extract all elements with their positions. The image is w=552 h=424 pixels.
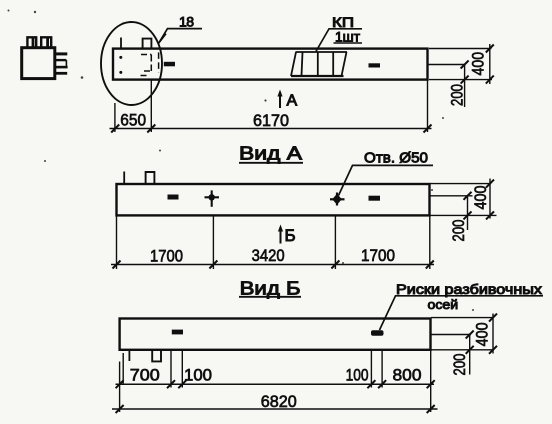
- svg-text:1700: 1700: [150, 247, 183, 265]
- svg-text:Отв. Ø50: Отв. Ø50: [364, 150, 428, 167]
- main view: embedded tab above beam (item 18): [143, 39, 152, 49]
- view A right: dimension 400: [472, 179, 494, 220]
- main view: embedded plate mark (right): [369, 63, 381, 67]
- svg-text:Риски разбивочных: Риски разбивочных: [396, 282, 542, 297]
- label Riski razbivochnykh osey with leader: [380, 282, 544, 330]
- main view bottom: extension lines: [115, 80, 428, 132]
- svg-text:1700: 1700: [361, 247, 395, 265]
- view B right: dimension 200: [451, 331, 474, 376]
- svg-text:Вид Б: Вид Б: [240, 278, 301, 298]
- svg-text:400: 400: [472, 186, 490, 210]
- label KP 1sht with leader: [316, 15, 362, 51]
- view A: embedded plate mark (right): [369, 196, 381, 201]
- svg-text:400: 400: [474, 322, 492, 346]
- main view bottom: dimension line 650 / 6170: [110, 112, 432, 133]
- svg-text:Вид А: Вид А: [239, 144, 302, 164]
- view A: embedded plate mark (left): [168, 195, 179, 200]
- view A right: dimension 200: [450, 192, 472, 242]
- main view: KP plate (hatched insert): [291, 52, 347, 76]
- view B bottom: dimension line 700/100/100/800: [116, 367, 435, 389]
- view B: anchor rod tick below beam: [128, 350, 130, 361]
- svg-text:18: 18: [179, 14, 194, 30]
- view A bottom: dimension line 1700/3420/1700: [111, 247, 434, 269]
- view A: embedded tab above beam: [146, 172, 155, 184]
- main view: anchor rod tick above beam: [120, 38, 122, 49]
- svg-text:А: А: [287, 93, 298, 110]
- svg-text:КП: КП: [332, 15, 354, 30]
- svg-text:3420: 3420: [252, 247, 285, 265]
- section arrow A: [277, 90, 297, 110]
- svg-text:200: 200: [451, 354, 469, 376]
- section detail (top-left corner cross-section): [22, 37, 68, 78]
- view A: beam outline: [117, 184, 430, 215]
- view A: lifting loop symbol (circle with cross): [205, 190, 220, 206]
- svg-text:700: 700: [130, 367, 160, 385]
- svg-text:200: 200: [450, 220, 468, 242]
- view A title: [239, 144, 303, 164]
- main view: embedded plate mark (left): [164, 62, 175, 67]
- view B: embedded plate mark (left): [172, 330, 183, 335]
- view A: anchor rod tick above beam: [123, 172, 125, 184]
- view B bottom: extension lines: [120, 350, 431, 412]
- svg-text:400: 400: [470, 52, 488, 75]
- main view right: dimension 200: [449, 61, 469, 108]
- main view right: dimension 400: [470, 44, 494, 84]
- view B: embedded tab below beam: [152, 350, 161, 362]
- view B right: dimension 400: [474, 314, 498, 354]
- label 18 with leader: [159, 14, 203, 44]
- svg-text:6170: 6170: [253, 112, 289, 130]
- main view: detail ellipse around left end: [101, 22, 162, 105]
- label Otv. D50 with leader: [339, 150, 434, 196]
- view A bottom: extension lines: [117, 216, 430, 269]
- view B bottom: overall dimension 6820: [112, 393, 438, 413]
- svg-text:650: 650: [120, 112, 146, 130]
- view B right: extension lines: [431, 318, 494, 350]
- view A right: extension lines: [430, 184, 497, 216]
- main view: hidden (dashed) pocket detail inside left end: [141, 52, 159, 75]
- view B: beam outline: [120, 319, 431, 350]
- svg-text:800: 800: [393, 367, 422, 385]
- main view: two bolt dots in pocket: [119, 56, 122, 74]
- main view: beam outline: [113, 49, 428, 80]
- view B: axis scribe mark (right): [371, 330, 384, 336]
- svg-text:100: 100: [184, 367, 212, 385]
- svg-text:Б: Б: [285, 226, 296, 245]
- view A: hole mark: [330, 193, 345, 206]
- scan speckles: [8, 10, 475, 312]
- section arrow B: [278, 225, 296, 246]
- svg-text:200: 200: [449, 84, 467, 106]
- main view right: extension lines: [428, 49, 492, 80]
- svg-text:осей: осей: [428, 297, 459, 312]
- svg-text:6820: 6820: [261, 393, 297, 411]
- view B title: [239, 278, 301, 298]
- svg-text:100: 100: [346, 367, 369, 385]
